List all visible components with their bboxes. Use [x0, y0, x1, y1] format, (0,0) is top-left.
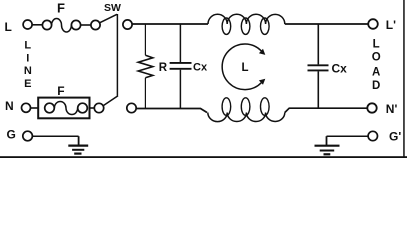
svg-text:E: E [24, 78, 31, 90]
node N' (output neutral terminal) [367, 102, 397, 116]
svg-text:Cx: Cx [193, 61, 208, 73]
svg-text:L: L [24, 40, 31, 52]
switch SW (top pole) [91, 2, 121, 30]
svg-text:F: F [57, 84, 64, 98]
inductor L1 top winding (common-mode choke) [208, 14, 285, 34]
wire L terminal to fuse F [32, 24, 42, 26]
svg-text:O: O [372, 51, 381, 63]
wire top rail: switch to choke [132, 23, 208, 25]
switch SW (bottom pole) [94, 96, 136, 113]
wire ground to G' [327, 135, 369, 137]
vertical LOAD label [372, 38, 381, 92]
svg-text:L: L [5, 20, 12, 34]
svg-text:R: R [159, 62, 168, 74]
svg-text:L: L [242, 62, 249, 74]
wire G to ground [32, 135, 78, 137]
node G (input ground terminal) [7, 128, 33, 142]
svg-text:L: L [373, 38, 380, 50]
vertical LINE label [24, 40, 32, 90]
border frame (table cell edges) [0, 156, 407, 158]
node G' (output ground terminal) [368, 129, 401, 143]
svg-text:N': N' [386, 102, 398, 116]
switch SW top right contact [123, 20, 132, 29]
fuse F (top) [42, 0, 80, 32]
capacitor Cx (left, X-cap) [170, 24, 208, 109]
ground (right earth symbol) [315, 136, 340, 154]
svg-text:N: N [5, 99, 14, 113]
node L' (output line terminal) [368, 18, 396, 32]
wire box to bottom switch [90, 107, 95, 109]
svg-text:I: I [26, 53, 29, 65]
fuse F (bottom, boxed) [38, 84, 89, 118]
svg-text:N: N [24, 65, 32, 77]
svg-text:G': G' [389, 129, 401, 143]
svg-text:F: F [57, 0, 65, 15]
coupling arrow L (circular arrow) [222, 44, 265, 90]
wire fuse to switch SW [81, 24, 91, 26]
svg-text:SW: SW [104, 2, 121, 14]
node L (input line terminal) [5, 20, 33, 34]
ground (left earth symbol) [68, 136, 88, 153]
resistor R [138, 24, 168, 109]
node N (input neutral terminal) [5, 99, 31, 113]
wire top rail: choke to L' [285, 23, 368, 25]
svg-text:G: G [7, 128, 16, 142]
wire N terminal to fused box [31, 107, 40, 109]
wire bottom rail: switch to choke [136, 109, 207, 113]
wire bottom rail: choke to N' [285, 108, 368, 112]
inductor L1 bottom winding (common-mode choke) [208, 98, 285, 122]
svg-text:Cx: Cx [332, 61, 348, 75]
capacitor Cx (right, X-cap) [308, 24, 348, 108]
switch SW linkage bar [116, 14, 118, 96]
svg-text:D: D [372, 80, 380, 92]
svg-text:L': L' [386, 18, 396, 32]
svg-text:A: A [372, 67, 380, 79]
